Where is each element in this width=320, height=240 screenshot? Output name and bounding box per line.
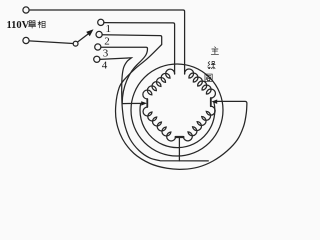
coil main-winding section a (top-left) <box>143 69 175 99</box>
contact 3 <box>95 44 101 50</box>
svg-text:110V: 110V <box>7 20 30 31</box>
inner arc: left lead to right lead under winding <box>140 102 215 148</box>
svg-text:2: 2 <box>104 35 110 47</box>
wire tap2: contact 2 around motor to right junction <box>102 35 247 170</box>
label main winding 主線圈 (vertical) <box>205 47 219 81</box>
svg-text:4: 4 <box>102 60 108 72</box>
glyph 單 <box>29 21 36 28</box>
coil main-winding section b (top-right) <box>185 69 216 98</box>
wire tap4: contact 4 around lower-left to bottom junction and tap2 arc <box>100 58 208 161</box>
terminal T2 (110V line bottom) <box>23 37 29 43</box>
switch pivot S <box>73 41 78 46</box>
coil main-winding section d (bottom-left) <box>143 107 176 141</box>
left junction bar <box>146 99 148 107</box>
bottom junction bar <box>176 136 184 138</box>
glyph 相 <box>38 21 45 28</box>
motor stator circle <box>131 64 223 156</box>
contact 4 <box>94 56 100 62</box>
contact 2 <box>96 31 102 37</box>
coil main-winding section c (bottom-right) <box>183 106 215 141</box>
right junction bar <box>210 98 212 106</box>
left junction lead with arrow <box>122 102 143 104</box>
bottom junction lead down to tap4 wire <box>178 138 180 161</box>
terminal T1 (110V line top) <box>23 7 29 13</box>
svg-text:1: 1 <box>106 23 112 35</box>
glyph 線 <box>208 61 215 68</box>
glyph 圈 <box>205 74 212 81</box>
switch arm (arrow toward contact 1) <box>78 34 89 42</box>
svg-text:3: 3 <box>103 47 109 59</box>
contact 1 <box>98 19 104 25</box>
wire L1: top supply to top of winding <box>29 10 184 74</box>
wire L2: bottom supply to switch pivot <box>29 41 73 44</box>
glyph 主 <box>211 47 218 54</box>
right junction lead with arrow <box>215 101 216 103</box>
wire tap3: contact 3 around upper-left to left junction lead <box>101 47 148 103</box>
wire tap1: contact 1 to winding top-left end <box>104 23 175 74</box>
